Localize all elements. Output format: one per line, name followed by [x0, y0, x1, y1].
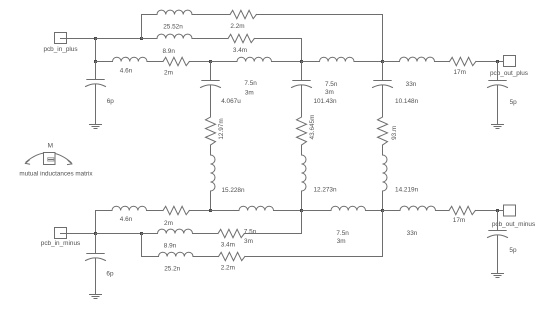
wire bottom main lead-in: [96, 210, 113, 212]
resistor (branch at x=301.5): [297, 117, 307, 145]
wire main to branch3: [354, 61, 383, 63]
ground (top-right): [492, 125, 504, 129]
wire bottom branch1 to ind: [211, 210, 240, 212]
junction branch1 top: [209, 60, 212, 63]
svg-text:mutual inductances matrix: mutual inductances matrix: [19, 170, 93, 177]
mutual inductance arrowhead left: [25, 160, 29, 164]
capacitor 5p (top-right): [488, 81, 508, 88]
svg-text:101.43n: 101.43n: [313, 98, 337, 105]
resistor (branch at x=382.5): [378, 117, 388, 145]
wire cap 6p to ground: [95, 85, 97, 125]
wire row A to drop: [256, 14, 382, 16]
wire bottom main to branch3: [366, 210, 383, 212]
wire branch resistor to inductor: [382, 145, 384, 155]
wire branch inductor to bottom: [301, 191, 303, 211]
capacitor 101.43n (branch): [292, 81, 312, 88]
junction node B: [140, 37, 143, 40]
capacitor 10.148n (branch): [373, 81, 393, 88]
wire node A down to main line: [95, 39, 97, 62]
svg-text:8.9n: 8.9n: [162, 48, 175, 55]
junction node A: [94, 37, 97, 40]
svg-text:7.5n: 7.5n: [244, 229, 257, 236]
svg-text:M: M: [48, 143, 53, 150]
resistor 3.4m (row B): [228, 34, 254, 42]
resistor 17m (bottom main): [449, 206, 475, 214]
svg-text:7.5n: 7.5n: [336, 230, 349, 237]
svg-text:3.4m: 3.4m: [233, 47, 247, 54]
inductor 7.5n first (bottom main): [239, 206, 274, 210]
svg-text:12.273n: 12.273n: [313, 186, 337, 193]
resistor 2.2m (row A): [230, 10, 256, 18]
ground (bottom-right): [492, 274, 504, 278]
inductor 25.2n (lowest row): [159, 252, 194, 256]
svg-text:17m: 17m: [453, 217, 465, 224]
svg-text:3m: 3m: [337, 238, 346, 245]
wire bottom main to branch2: [274, 210, 302, 212]
resistor 17m (top main): [450, 57, 476, 65]
wire low row rise to bottom main: [382, 211, 384, 257]
wire low row to rise: [245, 256, 383, 258]
junction branch2 top: [300, 60, 303, 63]
wire low row lead-in: [142, 256, 159, 258]
svg-text:pcb_out_plus: pcb_out_plus: [490, 70, 528, 77]
svg-text:4.067u: 4.067u: [221, 98, 241, 105]
wire branch resistor to inductor: [301, 145, 303, 155]
ground (bottom-left): [90, 295, 102, 299]
wire bottom branch2 to ind: [302, 210, 332, 212]
svg-text:17m: 17m: [453, 69, 465, 76]
wire out node to cap 5p: [497, 62, 499, 81]
mutual inductance symbol box: [44, 153, 56, 165]
wire bottom branch3 to ind: [383, 210, 401, 212]
wire row A drop to main line: [382, 15, 384, 62]
wire node D up to bottom main: [95, 211, 97, 234]
mutual inductance box inner mark: [48, 158, 54, 161]
svg-text:3.4m: 3.4m: [221, 241, 235, 248]
wire main to branch2: [272, 61, 302, 63]
svg-text:43.645m: 43.645m: [309, 115, 316, 140]
junction node D: [94, 232, 97, 235]
wire branch cap to resistor: [210, 86, 212, 118]
mutual inductance symbol M - coupling arc: [26, 153, 71, 163]
inductor 33n (bottom main): [400, 206, 436, 210]
wire branch 10.148n top: [382, 62, 384, 81]
svg-text:33n: 33n: [406, 81, 417, 88]
wire row E rise to bottom main: [301, 211, 303, 234]
inductor 7.5n first (top main): [237, 57, 272, 61]
wire main mid 1: [147, 61, 163, 63]
inductor 7.5n second (top main): [320, 57, 355, 61]
inductor 4.6n (bottom main): [112, 206, 147, 210]
wire row A mid: [192, 14, 230, 16]
wire branch 4.067u top: [210, 62, 212, 81]
wire main to branch1: [189, 61, 210, 63]
wire main mid 2: [435, 61, 450, 63]
wire bottom main to out node: [475, 210, 509, 212]
wire cap 5p to ground: [497, 86, 499, 125]
svg-text:3m: 3m: [245, 90, 254, 97]
inductor 25.52n (row A): [157, 10, 192, 14]
svg-text:14.219n: 14.219n: [395, 186, 419, 193]
inductor 8.9n (bottom row): [158, 229, 193, 233]
inductor (branch at x=301.5): [302, 155, 307, 191]
junction out node top: [496, 60, 499, 63]
port pcb_out_plus: [504, 56, 516, 67]
wire row B mid: [192, 38, 228, 40]
svg-text:33n: 33n: [407, 230, 418, 237]
inductor 33n (top main): [400, 57, 435, 61]
port pcb_in_minus: [55, 228, 67, 239]
mutual inductance arrowhead right: [68, 161, 72, 165]
wire bottom main mid 1: [147, 210, 164, 212]
wire row E lead-in: [142, 233, 158, 235]
junction node C: [94, 60, 97, 63]
wire branch cap to resistor: [301, 86, 303, 118]
capacitor 5p (bottom-right): [488, 231, 508, 238]
wire low row mid: [193, 256, 219, 258]
wire main lead-in: [96, 61, 113, 63]
wire main branch2 to ind: [302, 61, 320, 63]
svg-text:15.228n: 15.228n: [221, 187, 245, 194]
svg-text:10.148n: 10.148n: [395, 98, 419, 105]
resistor 2m (top main): [163, 57, 189, 65]
port pcb_in_plus: [55, 33, 67, 44]
port pcb_out_minus: [504, 205, 516, 216]
resistor 2.2m (lowest row): [219, 252, 245, 260]
svg-text:12.97m: 12.97m: [218, 118, 225, 139]
inductor 7.5n second (bottom main): [331, 206, 366, 210]
wire main branch1 to ind: [211, 61, 238, 63]
capacitor 6p (top-left): [86, 80, 106, 87]
svg-text:pcb_out_minus: pcb_out_minus: [492, 221, 535, 228]
svg-text:25.52n: 25.52n: [163, 23, 183, 30]
svg-text:3m: 3m: [244, 238, 253, 245]
svg-text:pcb_in_minus: pcb_in_minus: [41, 240, 80, 247]
wire port to node D: [61, 233, 96, 235]
wire row E mid: [193, 233, 219, 235]
junction branch3 bottom: [381, 209, 384, 212]
junction branch3 top: [381, 60, 384, 63]
capacitor 4.067u (branch): [201, 81, 221, 88]
wire row A lead-in: [142, 14, 158, 16]
svg-text:5p: 5p: [509, 247, 517, 254]
inductor (branch at x=210.5): [211, 155, 216, 191]
svg-text:5p: 5p: [510, 99, 518, 106]
wire bottom main mid 2: [436, 210, 450, 212]
wire node D to node E: [96, 233, 142, 235]
resistor 3.4m (bottom row): [218, 229, 244, 237]
wire out node to cap 5p: [497, 211, 499, 231]
wire node A to node B: [96, 38, 142, 40]
svg-text:2m: 2m: [164, 220, 173, 227]
junction branch2 bottom: [300, 209, 303, 212]
svg-text:2.2m: 2.2m: [221, 265, 235, 272]
junction node E: [140, 232, 143, 235]
wire row B to drop: [254, 38, 301, 40]
wire branch resistor to inductor: [210, 145, 212, 155]
wire cap 5p to ground: [497, 236, 499, 274]
svg-text:7.5n: 7.5n: [244, 80, 257, 87]
wire row B drop to main line: [301, 39, 303, 62]
wire branch inductor to bottom: [210, 191, 212, 211]
svg-text:7.5n: 7.5n: [325, 81, 338, 88]
wire main to out node: [476, 61, 510, 63]
svg-text:2m: 2m: [164, 69, 173, 76]
svg-text:93.m: 93.m: [391, 126, 398, 140]
wire row E to rise: [244, 233, 301, 235]
wire bottom main to branch1: [189, 210, 210, 212]
junction branch1 bottom: [209, 209, 212, 212]
wire node B up to row A: [141, 15, 143, 39]
svg-text:4.6n: 4.6n: [120, 68, 133, 75]
svg-text:6p: 6p: [106, 271, 114, 278]
wire cap 6p to ground: [95, 259, 97, 295]
svg-text:2.2m: 2.2m: [230, 23, 244, 30]
wire node D to cap 6p: [95, 234, 97, 254]
inductor 4.6n (top main): [113, 57, 148, 61]
svg-text:6p: 6p: [107, 98, 115, 105]
svg-text:pcb_in_plus: pcb_in_plus: [43, 46, 77, 53]
capacitor 6p (bottom-left): [86, 254, 106, 261]
svg-text:25.2n: 25.2n: [164, 265, 180, 272]
wire branch 101.43n top: [301, 62, 303, 81]
svg-text:4.6n: 4.6n: [120, 216, 133, 223]
wire node E down to low row: [141, 234, 143, 257]
resistor 2m (bottom main): [163, 206, 189, 214]
inductor 8.9n (row B): [157, 34, 192, 38]
ground (top-left): [90, 125, 102, 129]
junction out node bottom: [496, 209, 499, 212]
wire node C to cap 6p: [95, 62, 97, 80]
resistor (branch at x=210.5): [206, 117, 216, 145]
wire branch inductor to bottom: [382, 191, 384, 211]
wire branch cap to resistor: [382, 86, 384, 118]
wire row B lead-in: [142, 38, 158, 40]
svg-text:8.9n: 8.9n: [164, 243, 177, 250]
wire port to node A: [61, 38, 96, 40]
svg-text:3m: 3m: [325, 89, 334, 96]
wire main branch3 to ind: [383, 61, 400, 63]
inductor (branch at x=382.5): [383, 155, 388, 191]
